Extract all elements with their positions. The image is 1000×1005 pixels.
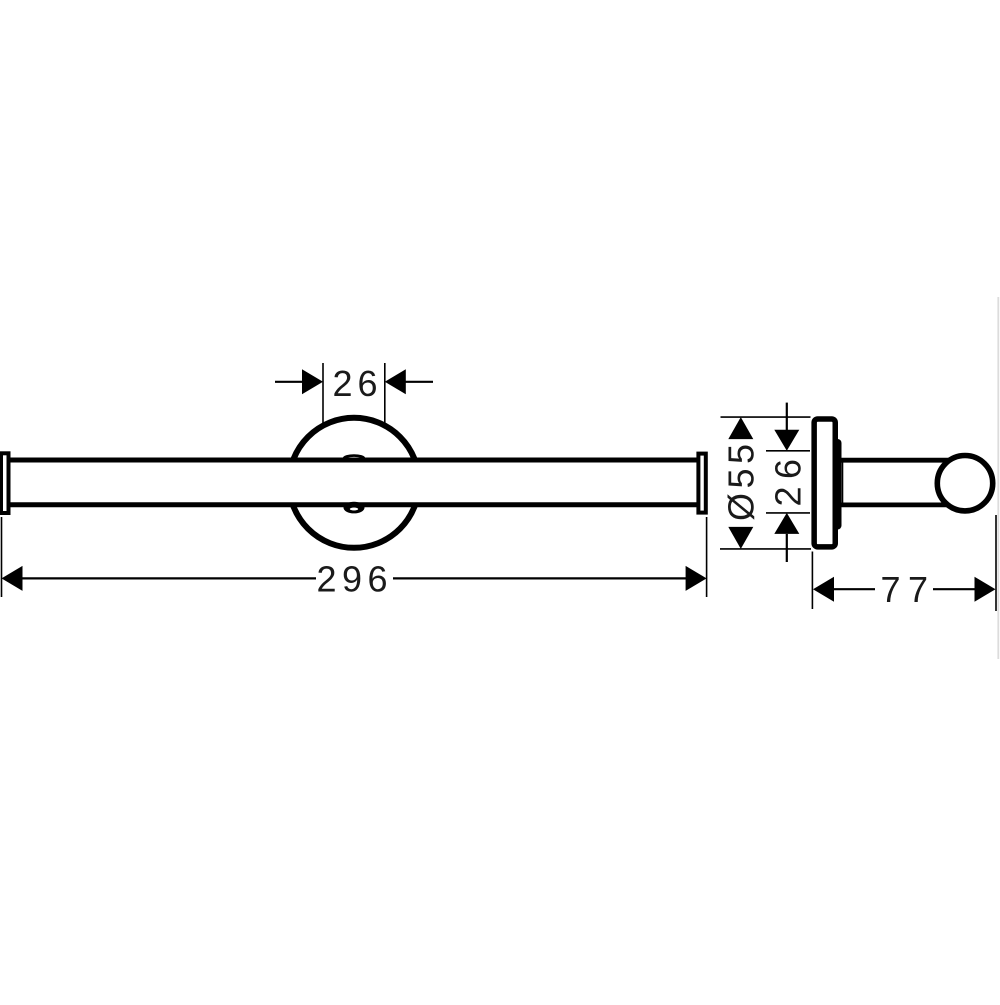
svg-text:Ø55: Ø55 bbox=[721, 444, 762, 521]
svg-text:296: 296 bbox=[317, 559, 388, 600]
